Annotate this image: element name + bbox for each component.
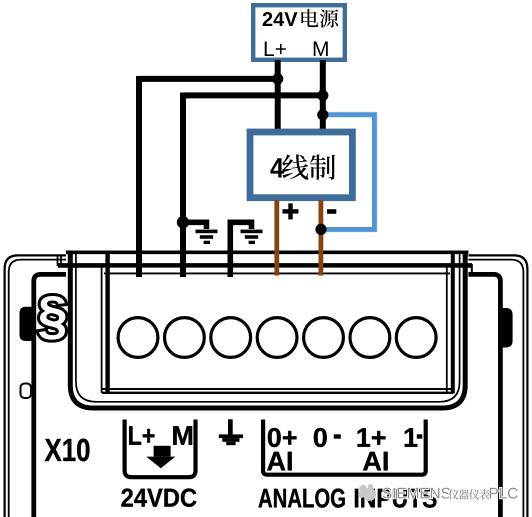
functional earth symbol — [219, 419, 243, 445]
label 24VDC — [121, 488, 196, 506]
label L+ supply — [265, 42, 286, 56]
terminal block right edge — [447, 253, 453, 394]
wire L+ vertical — [275, 60, 281, 131]
terminal rail thin line — [104, 272, 450, 274]
wire L+ branch horizontal — [139, 76, 278, 82]
terminal block bottom edge — [102, 389, 453, 393]
terminal cover fill — [66, 250, 468, 411]
wire to terminal 2 — [180, 93, 186, 278]
clip icon (section-sign) — [39, 296, 65, 340]
DIN clip right — [499, 308, 513, 348]
module recess step left — [58, 255, 62, 267]
label 4 — [270, 158, 283, 177]
PLC module body outer outline — [5, 255, 528, 517]
24VDC bracket — [125, 420, 196, 478]
label M module — [173, 426, 192, 445]
label 1+ — [358, 428, 386, 447]
label - — [327, 209, 336, 214]
label L+ module — [129, 426, 154, 445]
terminal block face fill — [104, 268, 450, 393]
terminal rail thick line — [58, 263, 472, 268]
left notch — [21, 384, 32, 399]
terminal cover inner stroke — [76, 251, 460, 402]
label 1- — [405, 428, 418, 447]
ground branch 1 wire — [183, 222, 207, 229]
DIN clip left — [20, 307, 34, 341]
wire + brown — [274, 200, 279, 276]
watermark text SIEMENS仪器仪表PLC — [383, 488, 450, 499]
terminal cover outer stroke — [70, 251, 465, 408]
label M supply — [314, 42, 328, 56]
ground symbol 1 — [196, 230, 218, 244]
analog bracket — [263, 420, 426, 475]
wire M branch horizontal — [183, 92, 323, 98]
junction dot minus wire — [315, 224, 326, 235]
label 24V — [263, 12, 298, 26]
module front face left edge — [34, 274, 68, 517]
junction dot ground branch — [177, 216, 189, 228]
label 0- — [314, 428, 327, 447]
watermark logo — [358, 484, 376, 501]
ground symbol 2 — [241, 230, 263, 244]
label 线制 — [282, 154, 335, 179]
4-wire transmitter box — [250, 132, 352, 198]
terminal screw holes — [118, 318, 436, 358]
PLC module body inner outline — [9, 260, 524, 517]
terminal cover top edge — [66, 251, 468, 255]
ground branch 2 wire — [230, 222, 251, 277]
signal loop wire light blue — [321, 113, 376, 231]
junction dot L+ — [272, 73, 283, 84]
label ANALOG — [259, 489, 345, 508]
arrow down — [154, 446, 171, 457]
label X10 — [45, 439, 90, 462]
junction dot M upper — [317, 90, 328, 101]
junction dot M lower — [317, 109, 328, 120]
label AI 1 — [363, 452, 388, 471]
label AI 0 — [267, 452, 292, 471]
label INPUTS — [355, 489, 437, 508]
terminal block left edge — [102, 253, 108, 394]
24V power supply box — [253, 5, 345, 60]
label + — [283, 203, 299, 219]
wire - brown — [318, 200, 323, 276]
wire to terminal 1 — [136, 76, 142, 277]
label 电源 — [301, 9, 338, 28]
label 0+ — [268, 428, 297, 447]
wire M vertical — [320, 60, 326, 131]
module front face right edge — [467, 274, 500, 517]
right step vertical — [471, 264, 473, 275]
